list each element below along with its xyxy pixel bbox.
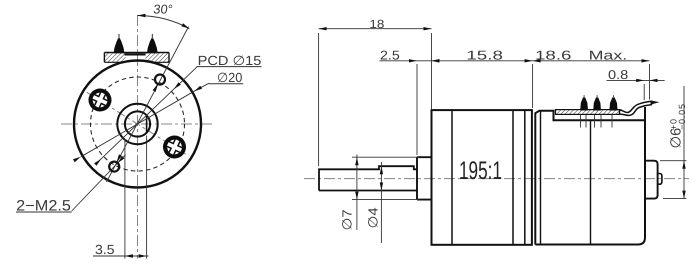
gearbox internal line 1	[451, 110, 453, 245]
diagonal centerline through screws	[87, 92, 189, 156]
gearbox internal line 3	[524, 110, 526, 245]
svg-text:−0.05: −0.05	[677, 103, 687, 130]
motor terminal pin C (side view)	[609, 97, 617, 110]
terminal block plate (front view, hatched)	[104, 53, 169, 63]
svg-text:18.6: 18.6	[535, 47, 572, 62]
output shaft circle (diameter 4) with flat	[125, 111, 150, 136]
svg-text:∅20: ∅20	[217, 70, 242, 85]
svg-text:30°: 30°	[153, 2, 174, 17]
horizontal centerline (front view)	[61, 123, 215, 125]
terminal pin 1 (front view)	[114, 38, 125, 53]
rear bearing hub (diameter 6)	[645, 161, 658, 199]
vertical centerline (front view)	[137, 15, 139, 259]
motor terminal pin A (side view)	[580, 97, 588, 110]
mounting hole 2 (M2.5)	[109, 162, 119, 172]
motor can crimp line	[540, 111, 542, 245]
motor terminal pin B (side view)	[593, 97, 601, 110]
svg-text:0.8: 0.8	[608, 67, 628, 82]
3.5 dimension	[124, 139, 126, 259]
PCD dimension leader line	[97, 66, 198, 163]
motor can seam line	[590, 120, 592, 244]
shaft boss (diameter 7)	[417, 157, 432, 199]
svg-text:∅7: ∅7	[340, 210, 355, 231]
dimension 18 (shaft length)	[318, 33, 320, 166]
bent solder tab at motor rear	[620, 101, 652, 115]
phillips screw 1	[88, 88, 113, 113]
phillips screw 2	[162, 135, 187, 160]
2-M2.5 leader line	[72, 155, 126, 211]
motor outer circle (diameter 20)	[74, 61, 201, 188]
horizontal centerline (side view)	[304, 178, 689, 180]
dimension 18.6 Max (motor length)	[649, 64, 651, 100]
bearing boss circle	[117, 104, 157, 144]
rear shaft end nub	[658, 174, 662, 185]
svg-text:195:1: 195:1	[459, 157, 502, 185]
svg-text:PCD ∅15: PCD ∅15	[198, 53, 262, 68]
PCD 15 bolt circle (dashed)	[91, 77, 185, 171]
svg-text:Max.: Max.	[589, 47, 628, 62]
dimension 2.5 (boss length)	[416, 64, 418, 155]
30 degree arc dimension	[138, 15, 190, 28]
30 degree radial line through mounting holes	[107, 27, 189, 183]
gearbox housing	[432, 110, 532, 245]
mounting hole 1 (M2.5)	[155, 75, 165, 85]
dimension 0.8 (tab thickness)	[643, 84, 645, 100]
motor can outline	[535, 107, 645, 245]
dimension diameter 6 with tolerance	[660, 160, 686, 162]
output shaft (side view)	[319, 166, 417, 190]
terminal leads below plate	[580, 114, 582, 127]
dimension 15.8 (gearbox length)	[532, 64, 534, 108]
dimension diameter 4	[380, 162, 382, 243]
diameter 20 dimension leader line	[194, 83, 209, 91]
dimension diameter 7	[352, 156, 419, 158]
gearbox internal line 2	[512, 110, 514, 245]
svg-text:15.8: 15.8	[466, 47, 503, 62]
terminal plate (side view, hatched)	[556, 110, 621, 115]
svg-text:3.5: 3.5	[95, 242, 115, 257]
terminal pin 2 (front view)	[147, 38, 158, 53]
svg-text:2.5: 2.5	[380, 48, 400, 63]
svg-text:∅4: ∅4	[366, 208, 381, 229]
svg-text:18: 18	[369, 17, 384, 31]
